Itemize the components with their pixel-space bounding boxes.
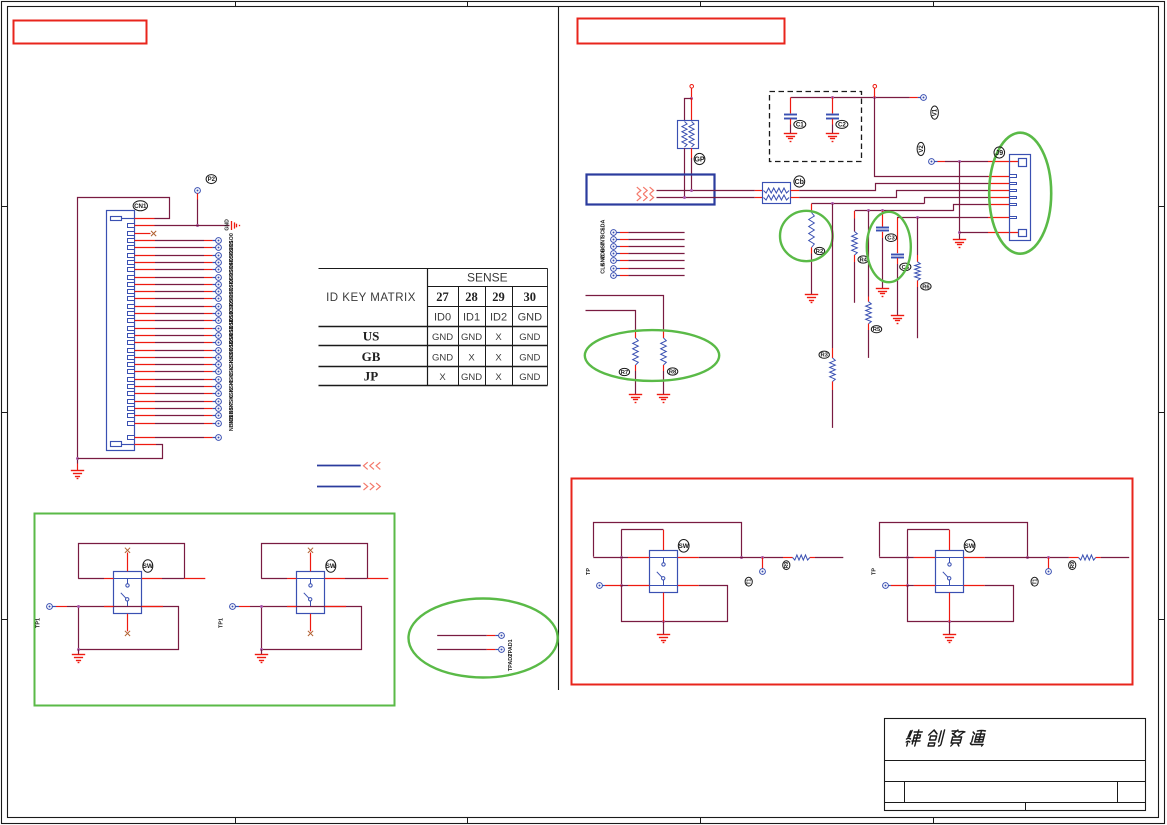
svg-text:X: X: [495, 372, 502, 383]
svg-text:SW: SW: [143, 563, 154, 570]
svg-text:SCL: SCL: [601, 227, 607, 238]
svg-text:P2: P2: [208, 177, 216, 183]
svg-text:GND: GND: [461, 332, 482, 343]
svg-text:GND: GND: [519, 332, 540, 343]
svg-text:R3: R3: [820, 353, 828, 359]
svg-text:SW: SW: [679, 543, 690, 550]
svg-text:CLK: CLK: [601, 263, 607, 274]
svg-text:J9: J9: [995, 150, 1003, 157]
svg-text:TP1: TP1: [219, 618, 225, 628]
svg-text:CN1: CN1: [134, 203, 147, 210]
svg-text:GND: GND: [518, 312, 543, 324]
svg-text:SW: SW: [326, 563, 337, 570]
svg-text:ID1: ID1: [463, 312, 480, 324]
svg-text:R6: R6: [922, 284, 930, 290]
svg-text:US: US: [363, 329, 380, 344]
svg-text:GP: GP: [694, 156, 704, 163]
svg-text:TP1: TP1: [36, 618, 42, 628]
svg-text:T1: T1: [1032, 579, 1038, 585]
svg-text:TP: TP: [872, 568, 878, 575]
svg-text:ID2: ID2: [490, 312, 507, 324]
svg-text:SW: SW: [964, 543, 975, 550]
svg-text:GND: GND: [432, 332, 453, 343]
svg-text:NBID1: NBID1: [229, 415, 235, 431]
svg-text:TPAD2: TPAD2: [508, 654, 514, 671]
svg-text:R2: R2: [816, 249, 823, 255]
svg-text:R7: R7: [621, 370, 628, 376]
svg-text:T1: T1: [747, 579, 753, 585]
svg-text:SENSE: SENSE: [467, 271, 508, 285]
svg-text:X: X: [495, 352, 502, 363]
svg-text:V1: V1: [933, 108, 939, 116]
svg-text:R4: R4: [859, 258, 867, 264]
svg-text:ID KEY MATRIX: ID KEY MATRIX: [326, 292, 416, 304]
svg-text:29: 29: [492, 290, 505, 304]
svg-text:GND: GND: [461, 372, 482, 383]
svg-text:JP: JP: [364, 369, 379, 384]
svg-text:R9: R9: [784, 562, 790, 569]
svg-text:GND: GND: [225, 219, 231, 231]
svg-text:GB: GB: [362, 349, 381, 364]
svg-text:GND: GND: [432, 352, 453, 363]
svg-text:28: 28: [465, 290, 478, 304]
svg-text:R5: R5: [873, 327, 881, 333]
svg-text:ID0: ID0: [434, 312, 451, 324]
svg-text:C1: C1: [796, 122, 804, 129]
svg-text:V2: V2: [919, 145, 925, 153]
svg-text:X: X: [468, 352, 475, 363]
svg-text:R8: R8: [669, 370, 677, 376]
svg-text:X: X: [495, 332, 502, 343]
svg-text:Cb: Cb: [795, 179, 804, 186]
svg-text:27: 27: [436, 290, 449, 304]
svg-text:30: 30: [524, 290, 537, 304]
svg-text:C2: C2: [838, 122, 846, 129]
svg-text:X: X: [439, 372, 446, 383]
svg-text:GND: GND: [519, 352, 540, 363]
svg-text:R9: R9: [1070, 562, 1076, 569]
svg-text:GND: GND: [519, 372, 540, 383]
svg-text:C3: C3: [887, 236, 895, 242]
svg-text:TP: TP: [586, 568, 592, 575]
